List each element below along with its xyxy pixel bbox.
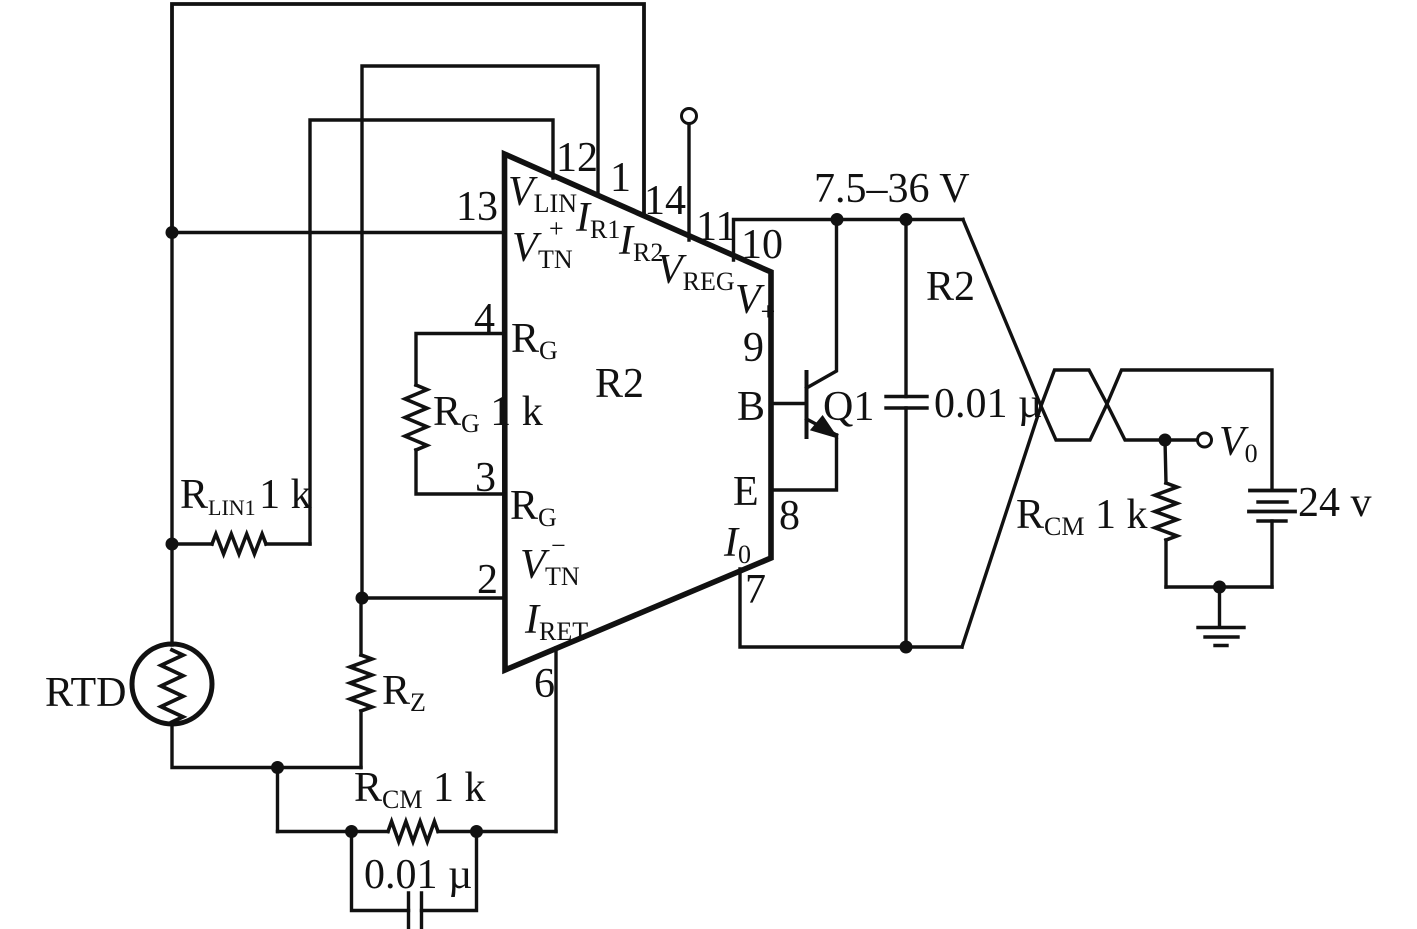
svg-text:V−TN: V−TN (520, 531, 580, 591)
svg-text:V+TN: V+TN (512, 214, 573, 274)
svg-text:7: 7 (745, 567, 766, 613)
svg-text:RG 1 k: RG 1 k (433, 389, 543, 438)
wire pin 2 (362, 596, 504, 599)
wire pin 4 (416, 334, 504, 386)
svg-text:IRET: IRET (524, 597, 588, 646)
svg-text:11: 11 (696, 204, 736, 250)
wire RZ leads (359, 598, 362, 768)
svg-text:12: 12 (556, 135, 598, 181)
wire Q1 base (pin B) (772, 402, 805, 405)
wire R_LIN1 left lead (172, 542, 212, 545)
wire pin 11 from terminal (687, 124, 690, 240)
svg-text:V0: V0 (1219, 419, 1258, 468)
wire bottom rail right part (438, 830, 556, 833)
resistor RCM 1k bottom (horizontal zigzag) (388, 822, 438, 842)
terminal pin 11 (682, 109, 697, 124)
wire pin 13 (172, 231, 504, 234)
wire R2 lower slant + twisted pair upper-out (962, 370, 1165, 647)
capacitor 0.01u right: top lead (904, 220, 907, 397)
svg-text:RCM 1 k: RCM 1 k (1016, 492, 1147, 541)
battery 24V plates (1250, 489, 1295, 493)
svg-text:E: E (733, 469, 759, 515)
wire ground lead (1218, 587, 1221, 626)
terminal V0 (1198, 433, 1212, 447)
svg-text:I0: I0 (723, 520, 751, 569)
ground symbol (1198, 628, 1244, 646)
svg-text:4: 4 (474, 296, 495, 342)
capacitor 0.01u right: bottom lead (904, 408, 907, 647)
svg-text:8: 8 (779, 493, 800, 539)
wire Q1 emitter to pin 8/E (772, 435, 837, 490)
wire pin 6 (554, 648, 557, 832)
svg-text:1: 1 (610, 155, 631, 201)
wire R_LIN1 right lead (266, 542, 310, 545)
wire R load leads (1165, 440, 1166, 587)
svg-text:B: B (737, 384, 765, 430)
svg-text:9: 9 (743, 325, 764, 371)
svg-text:Q1: Q1 (823, 384, 874, 430)
resistor RG 1k (vertical zigzag) (405, 385, 427, 450)
wire left rail down to RTD (170, 233, 173, 646)
svg-text:RG: RG (510, 483, 557, 532)
svg-text:0.01 µ: 0.01 µ (934, 381, 1042, 427)
op-amp/IC XTR block outline (505, 154, 772, 670)
wire loop frame3: R_LIN1 to pin 12 (310, 120, 553, 544)
wire RTD bottom to RZ bottom (172, 724, 361, 768)
wire outer loop: node A to pin 14 (172, 4, 644, 233)
resistor R_LIN1 1k (horizontal zigzag) (212, 534, 266, 554)
svg-text:RG: RG (511, 316, 558, 365)
svg-text:RLIN1 1 k: RLIN1 1 k (180, 472, 312, 520)
wire loop frame2: R_Z node to pin 1 (362, 66, 598, 598)
wire capacitor box left (352, 832, 409, 911)
svg-text:RZ: RZ (382, 668, 426, 717)
transistor Q1 emitter (807, 419, 837, 435)
transistor Q1 base bar (805, 372, 809, 437)
svg-text:7.5–36 V: 7.5–36 V (814, 166, 970, 212)
wire capacitor box right (422, 832, 477, 911)
wire pin 3 (416, 450, 504, 494)
svg-text:R2: R2 (926, 264, 975, 310)
svg-text:24 v: 24 v (1298, 480, 1372, 526)
svg-text:0.01 µ: 0.01 µ (364, 852, 472, 898)
svg-text:13: 13 (456, 184, 498, 230)
svg-text:14: 14 (644, 178, 686, 224)
capacitor C 0.01u bottom plates (409, 893, 422, 929)
wire battery bottom lead (1270, 521, 1273, 587)
transistor Q1 collector (807, 220, 837, 389)
wire R2 upper slant + twisted pair lower-out (963, 220, 1272, 491)
capacitor 0.01u right plates (886, 397, 927, 409)
svg-text:6: 6 (534, 661, 555, 707)
svg-text:2: 2 (477, 557, 498, 603)
svg-text:10: 10 (741, 222, 783, 268)
svg-text:RTD: RTD (45, 670, 126, 716)
RTD sensor circle (132, 644, 212, 724)
resistor RZ (vertical zigzag) (350, 655, 372, 711)
transistor Q1 emitter arrowhead (813, 418, 836, 437)
RTD internal resistor zigzag (161, 650, 183, 722)
wire bottom right rail (1166, 585, 1272, 588)
svg-text:RCM 1 k: RCM 1 k (354, 765, 485, 814)
svg-text:VREG: VREG (657, 247, 735, 296)
svg-text:R2: R2 (595, 361, 644, 407)
wire drop from node to bottom rail (276, 768, 279, 832)
wire V0 stub (1165, 438, 1197, 441)
wire pin 7 to bottom node (740, 569, 962, 647)
wire bottom rail left part (278, 830, 389, 833)
wire pin 10 and supply rail (734, 220, 964, 261)
resistor R load (vertical zigzag) (1155, 483, 1177, 540)
svg-text:3: 3 (475, 455, 496, 501)
